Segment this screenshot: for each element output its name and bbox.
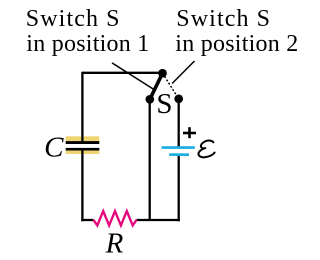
switch contact node (position 2) xyxy=(174,94,183,103)
switch contact node (position 1) xyxy=(145,95,154,104)
svg-text:S: S xyxy=(156,88,172,120)
svg-text:Switch S: Switch S xyxy=(26,6,121,32)
svg-text:in position 1: in position 1 xyxy=(26,31,149,57)
wire: battery branch upper (contact 2 to battery +) xyxy=(178,99,180,148)
wire: switch position-1 contact down to bottom wire xyxy=(149,99,151,220)
pointer line to switch blade (position 1) xyxy=(112,63,156,91)
label: Switch S in position 2 xyxy=(175,6,298,57)
label: Switch S in position 1 xyxy=(26,6,150,57)
battery + sign xyxy=(183,127,196,138)
capacitor highlight (yellow bands) xyxy=(66,136,100,154)
wire: top (node between C and switch pivot) xyxy=(82,72,162,74)
wire: bottom left (to resistor) xyxy=(81,219,93,221)
wire: battery branch lower (battery - to bottom) xyxy=(178,155,180,222)
switch dashed blade (position 2, open) xyxy=(163,73,179,99)
resistor R zigzag xyxy=(94,211,137,225)
svg-text:R: R xyxy=(105,228,124,260)
wire: left upper (C top) xyxy=(81,72,83,143)
wire: bottom right (resistor to battery branch) xyxy=(137,219,180,221)
svg-text:C: C xyxy=(44,132,64,164)
battery label script-E (EMF) xyxy=(198,141,214,158)
switch pivot node xyxy=(158,69,167,78)
wire: left lower (C bottom) xyxy=(81,149,83,221)
battery EMF terminal lines xyxy=(162,146,195,156)
pointer line to switch position 2 xyxy=(172,61,194,84)
switch blade (closed to position 1) xyxy=(150,73,163,99)
svg-text:Switch S: Switch S xyxy=(176,6,271,32)
svg-text:in position 2: in position 2 xyxy=(175,31,298,57)
capacitor C plates xyxy=(66,141,100,150)
